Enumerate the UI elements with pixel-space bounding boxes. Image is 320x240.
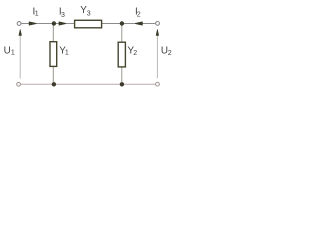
voltage arrow U1 shaft	[19, 33, 21, 79]
node junction bottom-left	[52, 82, 56, 86]
svg-text:2: 2	[137, 12, 141, 19]
admittance Y2 box	[118, 42, 125, 67]
voltage arrow U2 shaft	[156, 33, 158, 78]
wire Y1 upper stub	[52, 24, 54, 42]
node junction top-left	[52, 21, 56, 25]
terminal bottom-right	[156, 82, 160, 86]
svg-text:2: 2	[133, 50, 137, 57]
svg-text:U: U	[4, 46, 11, 57]
node junction top-right	[120, 21, 124, 25]
wire top-left segment	[21, 23, 74, 25]
svg-text:1: 1	[65, 50, 69, 57]
current arrow I3	[59, 22, 66, 25]
current arrow I2	[135, 22, 142, 25]
admittance Y1 box	[50, 42, 57, 67]
terminal bottom-left	[17, 82, 21, 86]
admittance Y3 box	[75, 20, 102, 28]
svg-text:3: 3	[87, 11, 91, 18]
voltage arrow U2 head	[156, 30, 159, 36]
svg-text:3: 3	[61, 12, 65, 19]
voltage arrow U1 head	[19, 30, 22, 36]
terminal top-left	[17, 22, 21, 26]
wire Y2 lower stub	[121, 67, 123, 85]
svg-text:1: 1	[11, 50, 15, 57]
current arrow I1	[29, 22, 36, 25]
node junction bottom-right	[120, 82, 124, 86]
wire Y1 lower stub	[52, 66, 54, 84]
wire bottom rail	[21, 83, 156, 85]
background	[0, 0, 180, 92]
terminal top-right	[156, 22, 160, 26]
wire top-right segment	[102, 23, 156, 25]
svg-text:2: 2	[168, 50, 172, 57]
wire Y2 upper stub	[121, 24, 123, 43]
svg-text:1: 1	[35, 10, 39, 17]
